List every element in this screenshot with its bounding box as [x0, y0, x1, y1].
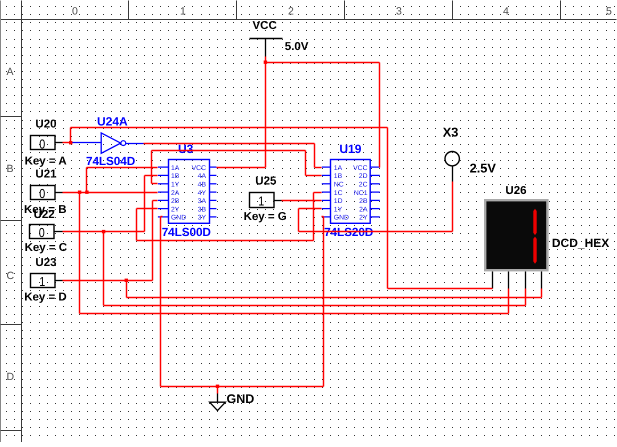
wire 1Y down	[305, 151, 307, 176]
display pin 1	[492, 272, 494, 289]
junction GND	[216, 385, 219, 388]
U19 pin stubs row 3	[322, 183, 331, 185]
ruler row ticks	[1, 116, 22, 118]
junction net D	[125, 279, 128, 282]
wire display pin 2 drop	[508, 289, 510, 314]
junction net B down branch	[78, 191, 81, 194]
wire U3 GND stub	[161, 216, 163, 218]
svg-text:2Y: 2Y	[359, 215, 368, 222]
wire VCC rail right	[266, 62, 380, 64]
wire display pin 3 drop	[525, 289, 527, 306]
display pin 2	[508, 272, 510, 289]
svg-text:74LS04D: 74LS04D	[86, 154, 136, 168]
svg-text:1B: 1B	[334, 173, 343, 180]
wire U21 output to U3 2A	[63, 192, 158, 194]
svg-text:A: A	[7, 66, 14, 78]
U19 pin stubs row 4	[322, 191, 331, 193]
wire net B to display pin 2	[80, 313, 509, 315]
ground symbol	[217, 394, 219, 403]
U19 pin stubs row 7	[322, 216, 331, 218]
inverter input wire (blue)	[71, 142, 102, 144]
svg-text:74LS00D: 74LS00D	[162, 225, 212, 239]
svg-text:C: C	[7, 270, 15, 282]
svg-text:GND: GND	[334, 215, 349, 222]
wire net A down right side	[387, 128, 389, 289]
lamp probe X3	[445, 152, 459, 166]
wire into U19 GND pin	[322, 216, 324, 218]
svg-text:1: 1	[39, 274, 45, 289]
switch U21 (Key=B)	[31, 186, 56, 200]
segment digit 1 (upper)	[533, 209, 536, 235]
wire net C into U3 1B	[145, 175, 158, 177]
svg-text:U3: U3	[178, 142, 194, 156]
svg-text:U21: U21	[35, 169, 57, 181]
svg-text:U24A: U24A	[97, 114, 128, 128]
segment digit 1 (lower)	[533, 237, 536, 264]
U3 pin stubs row 6	[158, 208, 168, 210]
switch U25 (Key=G)	[250, 193, 275, 208]
svg-text:U22: U22	[34, 209, 55, 221]
junction net C	[102, 230, 105, 233]
svg-text:0: 0	[39, 136, 45, 151]
svg-text:2.5V: 2.5V	[470, 161, 497, 176]
svg-text:1A: 1A	[171, 165, 180, 172]
seven-segment display U26 DCD_HEX	[485, 200, 547, 270]
wire VCC down to U19 VCC	[379, 63, 381, 168]
wire into U19 1C	[314, 192, 322, 194]
wire U24A output across	[144, 143, 315, 145]
ruler column ticks	[128, 1, 130, 20]
svg-text:U20: U20	[35, 118, 56, 130]
svg-text:3B: 3B	[198, 206, 207, 213]
U3 pin stubs row 7	[158, 216, 168, 218]
display pin 4	[541, 272, 543, 289]
svg-text:1Y: 1Y	[334, 206, 343, 213]
svg-text:GND: GND	[171, 215, 186, 222]
svg-text:0: 0	[39, 225, 45, 240]
wire net D down	[126, 281, 128, 298]
wire net B down	[79, 193, 81, 314]
U3 pin stubs row 3	[158, 183, 168, 185]
sheet border ruler left	[21, 1, 23, 443]
svg-text:2A: 2A	[171, 190, 180, 197]
wire VCC stem to junction	[265, 57, 267, 63]
svg-text:4Y: 4Y	[198, 190, 207, 197]
svg-text:Key = G: Key = G	[244, 211, 287, 223]
svg-text:VCC: VCC	[192, 165, 206, 172]
window left edge	[0, 1, 2, 443]
svg-text:VCC: VCC	[353, 165, 367, 172]
wire 1Y(U19) down	[298, 209, 300, 232]
wire net C to display pin 3	[104, 305, 526, 307]
svg-text:1: 1	[258, 194, 264, 209]
wire U22 output	[63, 231, 145, 233]
svg-text:NC1: NC1	[354, 190, 368, 197]
svg-text:4: 4	[503, 6, 509, 18]
svg-text:U23: U23	[35, 257, 56, 269]
wire into U19 1B	[306, 175, 322, 177]
wire into U3 VCC pin	[217, 167, 266, 169]
wire 1Y across	[152, 150, 306, 152]
wire down to U19 1A	[314, 144, 316, 168]
svg-text:5: 5	[606, 6, 612, 18]
svg-text:VCC: VCC	[253, 20, 277, 32]
U19 pin stubs row 1	[322, 166, 331, 168]
svg-text:1A: 1A	[334, 165, 343, 172]
inverter U24A 74LS04D	[101, 133, 121, 153]
wire lamp X3 drop	[452, 182, 454, 232]
svg-text:X3: X3	[443, 125, 459, 140]
wire net A to display pin 1	[388, 288, 493, 290]
switch U20 (Key=A)	[31, 136, 56, 150]
svg-text:0: 0	[72, 6, 78, 18]
wire 2Y down	[136, 209, 138, 241]
wire net A across top	[71, 127, 388, 129]
wire U3 2Y out	[137, 208, 158, 210]
svg-text:Key = A: Key = A	[25, 155, 67, 167]
wire net D to display pin 4	[127, 297, 542, 299]
junction net B up branch	[85, 191, 88, 194]
svg-text:Key = D: Key = D	[24, 291, 67, 303]
svg-text:1C: 1C	[334, 190, 343, 197]
wire U3 GND down	[160, 217, 162, 387]
wire into U19 1A pin	[315, 167, 322, 169]
svg-text:1D: 1D	[334, 198, 343, 205]
U3 pin stubs row 4	[158, 191, 168, 193]
junction net A at U20	[69, 141, 72, 144]
svg-text:2A: 2A	[359, 206, 368, 213]
wire net B to U3 1A	[87, 167, 158, 169]
wire U3 1Y out	[152, 183, 158, 185]
wire to lamp X3	[299, 231, 453, 233]
svg-text:5.0V: 5.0V	[285, 41, 309, 53]
wire U19 1Y out	[299, 208, 322, 210]
wire display pin 4 drop	[541, 289, 543, 298]
junction VCC	[264, 61, 267, 64]
U19 pin stubs row 5	[322, 199, 331, 201]
svg-text:1Y: 1Y	[171, 182, 180, 189]
svg-text:Key = C: Key = C	[25, 242, 68, 254]
wire U19 GND down	[323, 217, 325, 387]
U3 chip body	[169, 160, 210, 224]
wire net D into U3 2B	[153, 200, 158, 202]
wire 1Y up	[151, 151, 153, 184]
wire 2Y across	[137, 240, 314, 242]
wire net B up branch	[86, 168, 88, 193]
display pin 3	[525, 272, 527, 289]
sheet border ruler top	[1, 19, 617, 21]
svg-text:2B: 2B	[359, 198, 368, 205]
U19 pin stubs row 6	[322, 208, 331, 210]
wire net D up	[152, 201, 154, 281]
power VCC symbol	[250, 38, 283, 40]
wire VCC down to U3 VCC	[265, 63, 267, 168]
wire U20 output	[63, 142, 71, 144]
wire net A up	[70, 128, 72, 143]
U3 pin stubs row 2	[158, 174, 168, 176]
svg-text:U19: U19	[339, 142, 361, 156]
wire net C down	[103, 232, 105, 306]
svg-text:3Y: 3Y	[198, 215, 207, 222]
svg-text:1B: 1B	[171, 173, 180, 180]
svg-text:2D: 2D	[359, 173, 368, 180]
U19 pin stubs row 2	[322, 174, 331, 176]
svg-text:3: 3	[396, 6, 402, 18]
svg-text:1: 1	[180, 6, 186, 18]
wire up to U19 1C	[313, 193, 315, 241]
U3 pin stubs row 5	[158, 199, 168, 201]
svg-text:0: 0	[39, 186, 45, 201]
svg-text:4B: 4B	[198, 182, 207, 189]
switch U22 (Key=C)	[30, 225, 55, 239]
svg-text:2B: 2B	[171, 198, 180, 205]
svg-text:NC: NC	[334, 182, 344, 189]
svg-text:DCD_HEX: DCD_HEX	[552, 236, 609, 250]
wire U23 output	[63, 280, 153, 282]
svg-text:2: 2	[288, 6, 294, 18]
svg-text:2Y: 2Y	[171, 206, 180, 213]
svg-text:U26: U26	[505, 185, 526, 197]
svg-text:3A: 3A	[198, 198, 207, 205]
svg-text:U25: U25	[255, 175, 277, 187]
inverter output wire (blue)	[126, 143, 144, 145]
svg-text:B: B	[7, 163, 14, 175]
svg-text:4A: 4A	[198, 173, 207, 180]
U3 pin stubs row 1	[158, 166, 168, 168]
wire GND bus	[161, 386, 324, 388]
svg-text:GND: GND	[227, 392, 255, 406]
switch U23 (Key=D)	[31, 274, 56, 288]
svg-text:D: D	[7, 371, 15, 383]
wire net C up	[144, 176, 146, 232]
wire GND symbol tap	[217, 387, 219, 394]
svg-text:2C: 2C	[359, 182, 368, 189]
wire U25 to U19 1D	[282, 200, 322, 202]
U19 chip body	[331, 160, 371, 224]
